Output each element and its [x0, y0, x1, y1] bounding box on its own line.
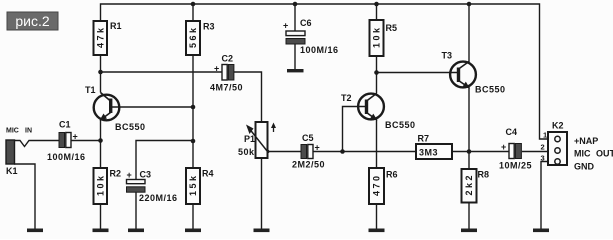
- svg-text:OUT: OUT: [596, 149, 613, 159]
- svg-text:C5: C5: [302, 133, 314, 143]
- wire V+ rail with right drop to K2 pin 1: [101, 4, 549, 139]
- wire C4 to K2 pin 2: [522, 151, 548, 153]
- junction R1-T1 collector-C2: [98, 70, 103, 75]
- svg-text:10k: 10k: [96, 173, 106, 196]
- svg-text:2k2: 2k2: [464, 173, 474, 196]
- svg-text:T2: T2: [341, 93, 352, 103]
- svg-text:R1: R1: [110, 21, 122, 31]
- svg-text:R3: R3: [203, 22, 215, 32]
- resistor R6: [369, 168, 398, 204]
- svg-text:56k: 56k: [188, 25, 198, 48]
- wire C6 bottom lead to ground: [294, 44, 296, 69]
- svg-text:+: +: [73, 132, 79, 142]
- transistor T1 (BC550): [85, 85, 146, 132]
- resistor R1: [94, 21, 122, 55]
- resistor R4: [186, 168, 214, 204]
- wire R4 bottom to ground: [192, 204, 194, 229]
- resistor R7: [416, 134, 452, 160]
- svg-text:100M/16: 100M/16: [47, 152, 86, 162]
- wire R3 top lead: [192, 4, 194, 21]
- wire K2 pin 3 to ground: [541, 162, 548, 229]
- capacitor C6 100M/16 electrolytic: [283, 18, 339, 55]
- junction rail-R3: [191, 2, 196, 7]
- wire R1 bottom to T1 collector: [100, 55, 102, 93]
- svg-text:1: 1: [543, 131, 547, 140]
- wire C3 top to base divider node: [136, 141, 193, 180]
- figure label рис.2: [7, 12, 58, 30]
- svg-text:R8: R8: [478, 170, 490, 180]
- wire T2 emitter down to R6: [376, 119, 378, 168]
- junction T1 base-R3/R4: [191, 105, 196, 110]
- wire C5 to R7 left: [314, 151, 417, 153]
- svg-text:50k: 50k: [238, 147, 255, 157]
- svg-text:3: 3: [541, 154, 545, 163]
- wire C3 bottom to ground: [135, 192, 137, 229]
- ground under R8: [461, 229, 477, 233]
- svg-text:10M/25: 10M/25: [499, 161, 532, 171]
- potentiometer P1: [238, 122, 276, 158]
- wire T3 collector lead: [468, 4, 470, 62]
- svg-text:рис.2: рис.2: [15, 13, 49, 29]
- wire T1 base to R3/R4 divider: [112, 106, 193, 108]
- junction C3-R4: [191, 139, 196, 144]
- capacitor C2 4M7/50: [210, 54, 243, 93]
- svg-text:R5: R5: [386, 23, 398, 33]
- wire T3 emitter down to output node: [468, 87, 470, 152]
- ground under P1: [254, 229, 270, 233]
- junction rail-R5: [374, 2, 379, 7]
- wire T1 emitter down to R2: [100, 118, 102, 168]
- resistor R8: [462, 169, 490, 203]
- capacitor C3 220M/16 electrolytic: [127, 170, 178, 204]
- svg-text:R4: R4: [202, 169, 214, 179]
- svg-text:+NAP: +NAP: [574, 136, 598, 146]
- wire MIC IN with jack contact to C1: [14, 141, 59, 147]
- junction T3 emitter-R7-R8-C4: [467, 149, 472, 154]
- svg-text:T3: T3: [442, 51, 453, 61]
- ground under R4: [185, 229, 201, 233]
- wire R7 right to C4: [452, 151, 509, 153]
- wire C6 top lead: [294, 4, 296, 31]
- wire T2 base loop: [343, 107, 366, 152]
- junction C5-T2 base: [340, 149, 345, 154]
- svg-text:P1: P1: [244, 134, 255, 144]
- svg-text:15k: 15k: [188, 173, 198, 196]
- svg-text:IN: IN: [25, 128, 32, 135]
- svg-text:10k: 10k: [372, 25, 382, 48]
- svg-text:R2: R2: [110, 169, 122, 179]
- ground under K1: [27, 229, 43, 233]
- resistor R2: [94, 168, 122, 204]
- svg-text:C6: C6: [300, 18, 312, 28]
- wire C1 to T1 emitter node: [71, 140, 101, 142]
- wire R6 bottom to ground: [376, 204, 378, 229]
- capacitor C4 10M/25: [499, 127, 532, 171]
- connector K1 microphone jack: [6, 128, 32, 177]
- ground under C3: [128, 229, 144, 233]
- svg-text:BC550: BC550: [115, 122, 146, 132]
- resistor R3: [186, 21, 215, 55]
- svg-text:470: 470: [372, 173, 382, 196]
- resistor R5: [370, 20, 398, 56]
- svg-text:C3: C3: [140, 170, 152, 180]
- svg-text:2: 2: [541, 143, 545, 152]
- wire output node to R8 and ground: [468, 152, 470, 229]
- junction C1-T1 emitter-R2: [98, 138, 103, 143]
- svg-text:47k: 47k: [96, 25, 106, 48]
- wire P1 wiper to C5: [268, 151, 302, 153]
- svg-text:+: +: [283, 21, 289, 31]
- transistor T2 (BC550): [341, 93, 416, 130]
- svg-text:220M/16: 220M/16: [139, 193, 178, 203]
- svg-text:MIC: MIC: [574, 149, 591, 159]
- svg-text:K2: K2: [552, 121, 564, 131]
- wire R5 bottom to T2 collector: [376, 56, 378, 94]
- svg-text:R6: R6: [386, 170, 398, 180]
- svg-text:C4: C4: [506, 127, 518, 137]
- connector K2 output header: [541, 121, 613, 172]
- svg-text:100M/16: 100M/16: [300, 45, 339, 55]
- wire C2 to P1 top: [234, 72, 262, 122]
- svg-text:R7: R7: [418, 134, 430, 144]
- svg-text:+: +: [214, 64, 220, 74]
- ground under C6: [287, 69, 304, 72]
- svg-text:MIC: MIC: [6, 128, 19, 135]
- capacitor C1 100M/16: [47, 120, 86, 163]
- wire R3 bottom to R4 top: [192, 55, 194, 168]
- svg-text:3M3: 3M3: [419, 148, 438, 158]
- svg-text:+: +: [127, 170, 133, 180]
- svg-text:BC550: BC550: [385, 120, 416, 130]
- wire T1 collector node to C2: [101, 71, 223, 73]
- svg-text:C1: C1: [59, 120, 71, 130]
- junction P1 wiper: [266, 150, 270, 154]
- svg-text:C2: C2: [222, 54, 234, 64]
- svg-text:+: +: [315, 143, 321, 153]
- capacitor C5 2M2/50: [292, 133, 325, 170]
- junction rail-T3 collector: [467, 2, 472, 7]
- junction R5-T2 collector-T3 base: [374, 70, 379, 75]
- wire R5 top lead: [376, 4, 378, 20]
- junction rail-C6: [293, 2, 298, 7]
- svg-text:GND: GND: [574, 162, 595, 172]
- wire K1 sleeve to ground: [14, 164, 35, 229]
- svg-text:2M2/50: 2M2/50: [292, 160, 325, 170]
- svg-text:+: +: [501, 142, 507, 152]
- svg-text:K1: K1: [6, 166, 18, 176]
- ground under R6: [369, 229, 385, 233]
- wire R2 bottom to ground: [100, 204, 102, 229]
- svg-text:T1: T1: [85, 85, 96, 95]
- ground under R2: [93, 229, 109, 233]
- svg-text:4M7/50: 4M7/50: [210, 83, 243, 93]
- wire P1 bottom to ground: [261, 158, 263, 229]
- transistor T3 (BC550): [442, 51, 506, 95]
- ground under K2: [533, 229, 549, 233]
- wire T2 collector node to T3 base: [377, 72, 458, 74]
- svg-text:BC550: BC550: [475, 85, 506, 95]
